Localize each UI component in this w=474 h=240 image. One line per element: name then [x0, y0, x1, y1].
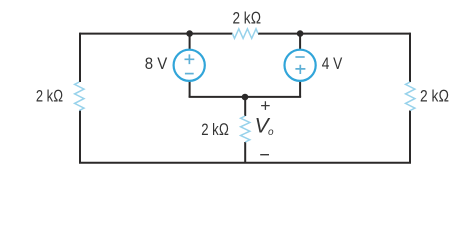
voltage source V1 8V circle [174, 50, 205, 81]
svg-text:8 V: 8 V [145, 54, 168, 73]
resistor R1 top 2 kOhm zigzag [232, 29, 258, 39]
svg-text:2 kΩ: 2 kΩ [233, 9, 262, 28]
V2 plus sign [295, 65, 305, 74]
V2 minus sign [295, 56, 304, 58]
wire right vertical upper [409, 33, 411, 82]
V1 plus sign [185, 54, 195, 64]
svg-text:2 kΩ: 2 kΩ [420, 86, 449, 105]
svg-text:o: o [268, 127, 274, 138]
node dot middle junction [242, 94, 249, 101]
wire top-left horizontal [80, 33, 232, 35]
svg-text:2 kΩ: 2 kΩ [201, 120, 229, 139]
resistor R4 middle 2 kOhm zigzag [241, 116, 250, 142]
node dot right source top [297, 30, 304, 37]
voltage source V2 4V circle [285, 50, 316, 81]
wire right source top lead [299, 34, 301, 50]
svg-text:2 kΩ: 2 kΩ [36, 86, 63, 105]
wire left source bottom lead [189, 82, 191, 98]
wire bottom horizontal [79, 162, 411, 164]
wire left vertical upper [79, 33, 81, 82]
wire between source bottoms [189, 96, 302, 98]
wire top-right horizontal [258, 33, 410, 35]
resistor R3 right 2 kOhm zigzag [406, 82, 415, 111]
V1 minus sign [185, 73, 194, 75]
wire right vertical lower [409, 111, 411, 163]
wire left source top lead [189, 34, 191, 50]
svg-text:4 V: 4 V [322, 54, 343, 73]
wire middle upper lead [244, 97, 246, 116]
node dot left source top [186, 30, 193, 37]
wire middle lower lead [244, 142, 246, 163]
wire left vertical lower [79, 111, 81, 163]
label minus polarity Vo [260, 154, 269, 156]
resistor R2 left 2 kOhm zigzag [75, 82, 84, 111]
label plus polarity Vo [261, 101, 270, 110]
wire right source bottom lead [299, 82, 301, 98]
